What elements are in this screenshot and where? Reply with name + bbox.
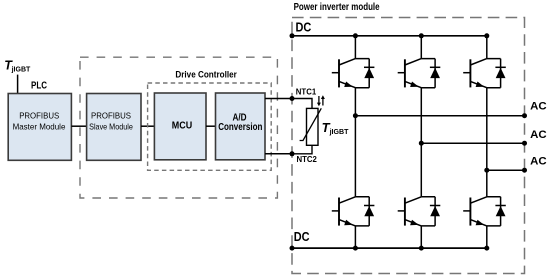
block PROFIBUS Slave Module <box>87 94 141 161</box>
svg-text:AC: AC <box>530 101 547 113</box>
svg-text:PROFIBUS: PROFIBUS <box>19 111 59 121</box>
node AC3 right terminal <box>522 168 527 173</box>
node DC+ leg 1 <box>353 33 358 38</box>
block A/D Conversion <box>216 93 266 160</box>
svg-text:DC: DC <box>294 230 310 244</box>
wire T_jIGBT input to PLC box <box>17 75 19 94</box>
node DC- leg 3 <box>484 246 489 251</box>
wire leg 3 upper collector lead <box>486 36 488 59</box>
svg-text:jIGBT: jIGBT <box>329 127 349 136</box>
wire A/D conversion to NTC1 terminal <box>265 98 292 100</box>
wire leg 2 lower emitter lead <box>420 226 422 248</box>
node DC+ leg 2 <box>419 33 424 38</box>
node AC2 at leg 2 midpoint <box>419 141 424 146</box>
transistor Q5 lower IGBT leg 2 with diode D5 <box>398 197 441 226</box>
dashed box: Drive Controller <box>148 83 272 170</box>
wire leg 1 midpoint <box>354 88 356 197</box>
dashed enclosure: power inverter module <box>292 18 525 274</box>
block MCU <box>154 93 206 160</box>
svg-text:NTC2: NTC2 <box>297 155 318 164</box>
node DC+ left terminal <box>290 33 295 38</box>
node AC1 at leg 1 midpoint <box>353 113 358 118</box>
wire leg 3 lower emitter lead <box>486 226 488 248</box>
arrow heat exchange down <box>318 96 320 104</box>
svg-text:Slave Module: Slave Module <box>89 122 133 132</box>
transistor Q4 lower IGBT leg 1 with diode D4 <box>332 197 375 226</box>
node DC+ leg 3 <box>484 33 489 38</box>
svg-text:jIGBT: jIGBT <box>11 64 31 73</box>
wire leg 1 upper collector lead <box>354 36 356 59</box>
svg-text:Conversion: Conversion <box>218 122 262 133</box>
svg-text:Master Module: Master Module <box>13 122 66 132</box>
svg-text:NTC1: NTC1 <box>296 87 317 96</box>
wire A/D conversion to NTC2 terminal <box>265 153 292 155</box>
svg-text:AC: AC <box>530 129 547 141</box>
wire thermistor bottom to NTC2 terminal <box>292 145 312 154</box>
node DC- leg 2 <box>419 246 424 251</box>
svg-text:PLC: PLC <box>31 80 47 91</box>
wire leg 2 upper collector lead <box>420 36 422 59</box>
svg-text:MCU: MCU <box>172 120 192 131</box>
wire PROFIBUS slave to MCU <box>141 125 154 127</box>
block PLC: PROFIBUS Master Module <box>8 94 71 161</box>
transistor Q6 lower IGBT leg 3 with diode D6 <box>463 197 506 226</box>
node DC- left terminal <box>290 246 295 251</box>
wire AC phase 2 output <box>421 142 524 144</box>
wire AC phase 1 output <box>355 115 524 117</box>
wire DC+ bus <box>292 35 487 37</box>
node AC2 right terminal <box>522 141 527 146</box>
node AC3 at leg 3 midpoint <box>484 168 489 173</box>
wire leg 1 lower emitter lead <box>354 226 356 248</box>
node NTC2 terminal <box>290 151 295 156</box>
svg-text:Power inverter module: Power inverter module <box>294 2 380 13</box>
thermistor RT (NTC) body <box>307 108 319 145</box>
svg-text:AC: AC <box>530 156 547 168</box>
wire leg 2 midpoint <box>420 88 422 197</box>
wire DC- bus <box>292 247 487 249</box>
wire leg 3 midpoint <box>486 88 488 197</box>
dashed enclosure: drive controller outer boundary <box>80 57 277 198</box>
wire AC phase 3 output <box>487 169 525 171</box>
transistor Q2 upper IGBT leg 2 with diode D2 <box>398 59 441 88</box>
node AC1 right terminal <box>522 113 527 118</box>
wire PLC to PROFIBUS slave <box>71 125 86 127</box>
svg-text:Drive Controller: Drive Controller <box>175 70 237 81</box>
wire MCU to A/D conversion <box>206 125 216 127</box>
transistor Q1 upper IGBT leg 1 with diode D1 <box>332 59 375 88</box>
svg-text:DC: DC <box>296 20 312 34</box>
transistor Q3 upper IGBT leg 3 with diode D3 <box>463 59 506 88</box>
wire NTC1 terminal to thermistor top <box>292 99 312 109</box>
node DC- leg 1 <box>353 246 358 251</box>
svg-text:PROFIBUS: PROFIBUS <box>91 111 131 121</box>
arrow heat exchange up <box>322 98 324 106</box>
node NTC1 terminal <box>290 96 295 101</box>
thermistor RT diagonal stroke <box>300 108 322 140</box>
